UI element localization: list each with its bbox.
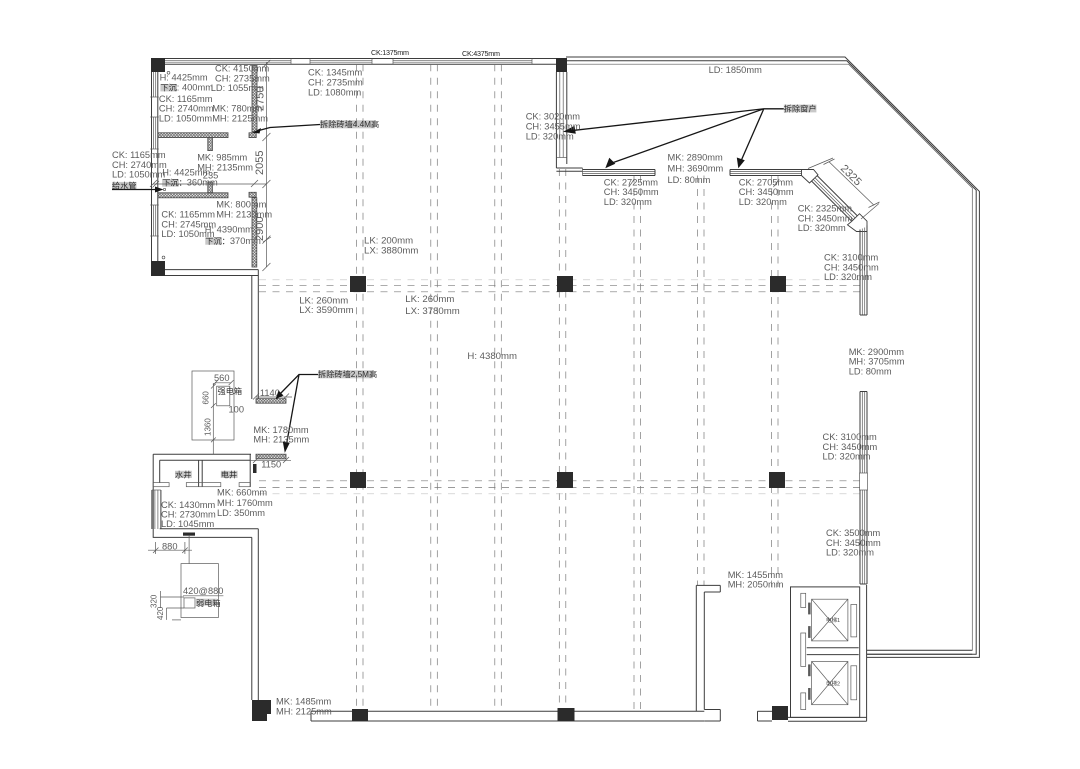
svg-text:LD: 320mm: LD: 320mm [823, 452, 871, 462]
svg-text:MK: 1485mm: MK: 1485mm [276, 696, 332, 706]
leader arrow: demolish brick wall 2.5M (two arrows) [276, 375, 318, 453]
text: shaft room labels [161, 470, 273, 529]
svg-text:LD: 320mm: LD: 320mm [739, 197, 787, 207]
window: right vertical window middle segment [860, 392, 867, 474]
grid line G5 vertical dashed pair [634, 176, 641, 712]
leader arrow: demolish brick wall 4.4M [253, 125, 321, 134]
svg-text:MK: 2890mm: MK: 2890mm [668, 152, 724, 162]
svg-text:电梯2: 电梯2 [826, 680, 840, 688]
svg-text:CH: 3450mm: CH: 3450mm [824, 262, 879, 272]
svg-text:CH: 3450mm: CH: 3450mm [823, 442, 878, 452]
column C13 bottom right [772, 706, 788, 720]
dimension 1150 for hatch bar 2 [250, 457, 291, 469]
svg-text:CH: 3450mm: CH: 3450mm [604, 187, 659, 197]
text: elevator labels [826, 616, 840, 688]
column C1 top-left [151, 58, 165, 72]
svg-text:LX: 3780mm: LX: 3780mm [405, 306, 459, 317]
window: mullion block [860, 473, 868, 490]
column C10 bottom-left big [252, 700, 271, 721]
dimension line vertical 2750/2055/2900 [254, 60, 271, 271]
svg-text:LD: 350mm: LD: 350mm [217, 508, 265, 518]
grid line G4 vertical dashed pair [559, 169, 566, 711]
door marker black rect at electric shaft [253, 464, 257, 473]
dimension box: weak current box 420@880 [181, 564, 223, 618]
svg-text:LD: 1050mm: LD: 1050mm [112, 169, 165, 179]
svg-text:MH: 2125mm: MH: 2125mm [276, 707, 332, 717]
grid line G6 vertical dashed pair [698, 176, 705, 586]
svg-text:CK: 2725mm: CK: 2725mm [604, 177, 659, 187]
hatched removable wall bar 2 [256, 454, 286, 459]
text: right middle labels [728, 347, 905, 590]
door frame bars elevator 2 [808, 664, 811, 699]
svg-text:CK: 1165mm: CK: 1165mm [112, 150, 166, 160]
column C4 grid row1 [350, 276, 366, 292]
svg-text:MK: 780mm: MK: 780mm [212, 104, 262, 114]
dimension 2325 diagonal [808, 158, 880, 219]
svg-text:CH: 2740mm: CH: 2740mm [112, 160, 167, 170]
wire: left exterior wall with windows [150, 72, 159, 261]
text: room A labels [159, 64, 270, 124]
svg-text:1150: 1150 [261, 459, 281, 469]
svg-text:LD: 1045mm: LD: 1045mm [161, 519, 214, 529]
hatched brick wall H1 (to demolish) [158, 133, 256, 151]
svg-text:MK: 2900mm: MK: 2900mm [849, 347, 905, 357]
svg-text:强电箱: 强电箱 [218, 386, 243, 396]
dimension 320/420 for weak box [150, 591, 185, 620]
svg-text:H: 4380mm: H: 4380mm [467, 351, 517, 362]
wall: elevator shaft block outline [788, 585, 867, 721]
svg-text:MH: 3705mm: MH: 3705mm [849, 357, 905, 367]
dimension box: strong current box [192, 371, 244, 454]
svg-text:LD: 320mm: LD: 320mm [604, 197, 652, 207]
grid row R2 horizontal dashed pair [259, 481, 860, 494]
svg-text:LD: 80mm: LD: 80mm [849, 366, 892, 376]
wall from column C3 to interior [165, 270, 258, 276]
svg-text:CH: 3450mm: CH: 3450mm [739, 187, 794, 197]
window: diagonal corner window [806, 170, 867, 230]
svg-text:CK: 1165mm: CK: 1165mm [161, 210, 215, 220]
text: left outside labels [112, 150, 167, 190]
svg-text:LK: 260mm: LK: 260mm [405, 294, 454, 305]
svg-text:MH: 2125mm: MH: 2125mm [212, 113, 268, 123]
elevator 1 door panel [851, 605, 857, 637]
column C5 grid row1 [557, 276, 573, 292]
window: right vertical window upper segment [860, 226, 867, 316]
dimension 880 [148, 542, 192, 555]
text: right top window labels [604, 152, 879, 282]
wire: leader from marker to weak current box [188, 536, 190, 564]
dimension ticks on window labels [629, 179, 635, 187]
svg-text:CH: 3455mm: CH: 3455mm [526, 122, 581, 132]
svg-text:MH: 1760mm: MH: 1760mm [217, 498, 273, 508]
dimension line horizontal room width [150, 171, 266, 187]
text: beam labels [299, 236, 517, 363]
svg-text:CH: 2740mm: CH: 2740mm [159, 104, 214, 114]
svg-text:LD: 1055mm: LD: 1055mm [211, 83, 264, 93]
grid line G1 vertical dashed pair [357, 64, 364, 711]
column C6 grid row1 [770, 276, 786, 292]
svg-text:H: 4425mm: H: 4425mm [160, 73, 208, 83]
svg-text:下沉：370mm: 下沉：370mm [205, 236, 261, 246]
svg-text:CH: 2735mm: CH: 2735mm [308, 78, 363, 88]
svg-text:LD: 320mm: LD: 320mm [824, 272, 872, 282]
svg-text:CK:1375mm: CK:1375mm [371, 48, 409, 57]
svg-text:LD: 1080mm: LD: 1080mm [308, 88, 361, 98]
grid line G7 vertical dashed pair [772, 176, 779, 588]
column C7 grid row2 [350, 472, 366, 488]
wall: water/electric shaft block [153, 454, 251, 537]
svg-text:2055: 2055 [254, 151, 266, 175]
hatched brick wall V1 vertical [252, 66, 257, 132]
elevator 2 door panel [851, 666, 857, 700]
svg-text:MK: 660mm: MK: 660mm [217, 488, 267, 498]
svg-text:CK: 3100mm: CK: 3100mm [824, 253, 879, 263]
wall: shaft bottom stubs with door openings [153, 483, 250, 487]
svg-text:LX: 3590mm: LX: 3590mm [299, 305, 353, 316]
svg-text:下沉：360mm: 下沉：360mm [162, 178, 218, 188]
leader arrows: demolish windows (three arrows) [563, 109, 784, 169]
svg-text:CK: 1345mm: CK: 1345mm [308, 68, 363, 78]
wall: shaft left stubs [801, 593, 806, 709]
svg-text:LD: 320mm: LD: 320mm [826, 548, 874, 558]
svg-text:电井: 电井 [221, 470, 237, 480]
column C11 bottom [352, 709, 368, 721]
elevator 1 car with X [812, 599, 848, 641]
svg-text:MH: 3690mm: MH: 3690mm [668, 164, 724, 174]
svg-text:CK: 4150mm: CK: 4150mm [215, 64, 270, 74]
svg-text:拆除砖墙4.4M高: 拆除砖墙4.4M高 [320, 119, 379, 129]
svg-text:MH: 2135mm: MH: 2135mm [253, 434, 309, 444]
label underlays for CJK density [112, 84, 816, 606]
wall: shaft divider [199, 460, 203, 487]
svg-text:CK:4375mm: CK:4375mm [462, 49, 500, 58]
wire: bottom exterior wall [311, 711, 772, 721]
svg-text:拆除窗户: 拆除窗户 [784, 103, 817, 113]
window: left wall window CK1430 [152, 490, 161, 529]
leader arrow: water supply pipe [112, 181, 166, 193]
wall: left lower exterior wall to bottom column [153, 529, 258, 700]
text: middle room labels [162, 152, 253, 187]
svg-text:420@880: 420@880 [183, 586, 223, 596]
column C8 grid row2 [557, 472, 573, 488]
svg-text:CK: 3100mm: CK: 3100mm [823, 432, 878, 442]
wall: corner stub at window L [556, 168, 582, 176]
svg-text:拆除砖墙2.5M高: 拆除砖墙2.5M高 [318, 369, 377, 379]
text: bottom left door labels [276, 696, 332, 716]
column C2 top-middle [556, 58, 567, 72]
svg-text:LD: 1050mm: LD: 1050mm [159, 113, 212, 123]
svg-text:给水管: 给水管 [112, 181, 137, 191]
wall: right open space bottom double line [867, 650, 973, 654]
svg-text:CK: 2325mm: CK: 2325mm [798, 204, 853, 214]
door swing circle markers [167, 71, 170, 74]
svg-text:420: 420 [156, 606, 165, 620]
svg-text:CK: 2705mm: CK: 2705mm [739, 177, 794, 187]
grid line G3 vertical dashed pair [495, 64, 502, 711]
svg-text:1360: 1360 [204, 418, 213, 436]
svg-text:320: 320 [150, 594, 159, 608]
grid line G2 vertical dashed pair [431, 64, 438, 711]
wall elbow block at window corner lower [848, 214, 868, 232]
divider wall between elevators [807, 648, 859, 655]
dimension 1140 for hatch bar 1 [253, 388, 292, 399]
column C12 bottom [558, 708, 575, 721]
svg-text:LD: 320mm: LD: 320mm [526, 132, 574, 142]
svg-text:下沉: 400mm: 下沉: 400mm [160, 83, 213, 93]
wall elbow block at window corner upper [802, 170, 819, 184]
window: vertical window below C2 [556, 72, 566, 168]
column C9 grid row2 [769, 472, 785, 488]
svg-text:MK: 800mm: MK: 800mm [216, 200, 266, 210]
hatched removable wall bar 1 with arrow target [256, 399, 286, 404]
svg-text:CK: 1165mm: CK: 1165mm [159, 94, 213, 104]
svg-text:CK: 3020mm: CK: 3020mm [526, 112, 581, 122]
svg-text:MH: 2130mm: MH: 2130mm [216, 210, 272, 220]
hatched brick wall H2 (to demolish) [158, 182, 256, 198]
svg-text:100: 100 [229, 405, 245, 415]
svg-text:MK: 1455mm: MK: 1455mm [728, 570, 784, 580]
text: door MK1780 labels [253, 425, 309, 444]
svg-text:880: 880 [162, 542, 178, 552]
svg-text:CH: 3450mm: CH: 3450mm [798, 213, 853, 223]
window: right vertical window lower segment [860, 490, 867, 584]
wire: top-right exterior boundary with chamfered corner, 3 parallel lines [566, 57, 979, 657]
svg-text:MK: 985mm: MK: 985mm [197, 152, 247, 162]
svg-text:H: 4425mm: H: 4425mm [162, 167, 210, 177]
elevator 2 car with X [812, 662, 848, 705]
svg-text:LD: 320mm: LD: 320mm [798, 223, 846, 233]
svg-text:CH: 3450mm: CH: 3450mm [826, 538, 881, 548]
svg-text:MH: 2050mm: MH: 2050mm [728, 580, 784, 590]
svg-text:LD: 1850mm: LD: 1850mm [709, 65, 762, 75]
black wall marker near weak current box [183, 533, 195, 536]
svg-text:LD: 80mm: LD: 80mm [668, 175, 711, 185]
wall: corridor wall near elevators [696, 585, 720, 721]
svg-text:CK: 1430mm: CK: 1430mm [161, 500, 216, 510]
text: lower room labels [161, 200, 272, 246]
svg-text:电梯1: 电梯1 [826, 616, 840, 624]
text: top middle labels [308, 48, 762, 142]
svg-text:LX: 3880mm: LX: 3880mm [364, 246, 418, 257]
wire: top exterior wall band with windows (x151-556) [151, 59, 556, 65]
door frame bars elevator 1 [808, 603, 811, 638]
svg-text:水井: 水井 [175, 470, 191, 480]
column C3 left [151, 261, 165, 276]
window H1 horizontal (to demolish) [583, 170, 656, 176]
wall: left interior vertical wall below C3 [252, 270, 258, 399]
svg-text:CH: 2735mm: CH: 2735mm [215, 73, 270, 83]
window H2 horizontal (to demolish) [730, 170, 808, 176]
svg-text:660: 660 [202, 391, 211, 405]
svg-text:CK: 3500mm: CK: 3500mm [826, 528, 881, 538]
grid row R1 horizontal dashed pair [259, 280, 860, 292]
hatched brick wall V2 vertical [252, 198, 257, 267]
